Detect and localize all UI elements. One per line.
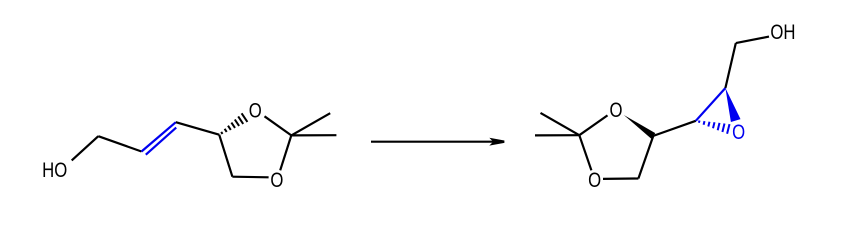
bond C5-C4	[638, 136, 653, 179]
bond CH-C4	[176, 122, 219, 135]
svg-text:O: O	[732, 121, 745, 144]
atom label O epoxide (blue)	[732, 121, 745, 144]
svg-text:HO: HO	[42, 159, 67, 182]
bond CH2-OH	[736, 37, 769, 44]
atom label O ring bottom left molecule	[270, 169, 283, 192]
atom label OH	[770, 21, 795, 44]
bond C2'-C3' epoxide (blue)	[696, 88, 726, 121]
bond O-CH2	[72, 136, 99, 160]
svg-text:O: O	[270, 169, 283, 192]
hashed wedge C2'-O epoxide (blue)	[699, 121, 730, 134]
bond Obottom-C5	[232, 176, 268, 179]
bond C2-Obottom	[280, 135, 291, 170]
bond CH3 left	[535, 134, 579, 136]
bold wedge Otop-C4 (stereo)	[624, 115, 656, 139]
atom label HO	[42, 159, 67, 182]
bond C2-Obottom	[579, 135, 591, 170]
bond CH3 upper-left	[541, 113, 580, 135]
bond Obottom-C5	[603, 177, 638, 180]
svg-text:O: O	[609, 99, 622, 122]
bond Otop-C2	[265, 116, 292, 135]
bond C=C main (blue)	[142, 122, 176, 151]
bond C2-Otop	[579, 115, 607, 135]
bond CH2-CH	[98, 136, 141, 151]
bond C=C second line (blue)	[146, 128, 176, 155]
bold wedge C3'-O epoxide (blue)	[725, 88, 740, 122]
svg-text:OH: OH	[770, 21, 795, 44]
svg-text:O: O	[588, 169, 601, 192]
bond C2-CH3 right	[291, 134, 336, 136]
atom label O ring top right molecule	[609, 99, 622, 122]
atom label O ring bottom right molecule	[588, 169, 601, 192]
hashed wedge C4-O (stereo)	[221, 113, 247, 134]
svg-text:O: O	[249, 100, 262, 123]
bond C4-epoxide C2'	[653, 121, 696, 136]
bond C3'-CH2	[725, 43, 735, 88]
reaction arrow	[371, 141, 500, 143]
bond C2-CH3 upper	[291, 113, 330, 135]
bond C5-C4	[219, 135, 232, 177]
atom label O ring top left molecule	[249, 100, 262, 123]
